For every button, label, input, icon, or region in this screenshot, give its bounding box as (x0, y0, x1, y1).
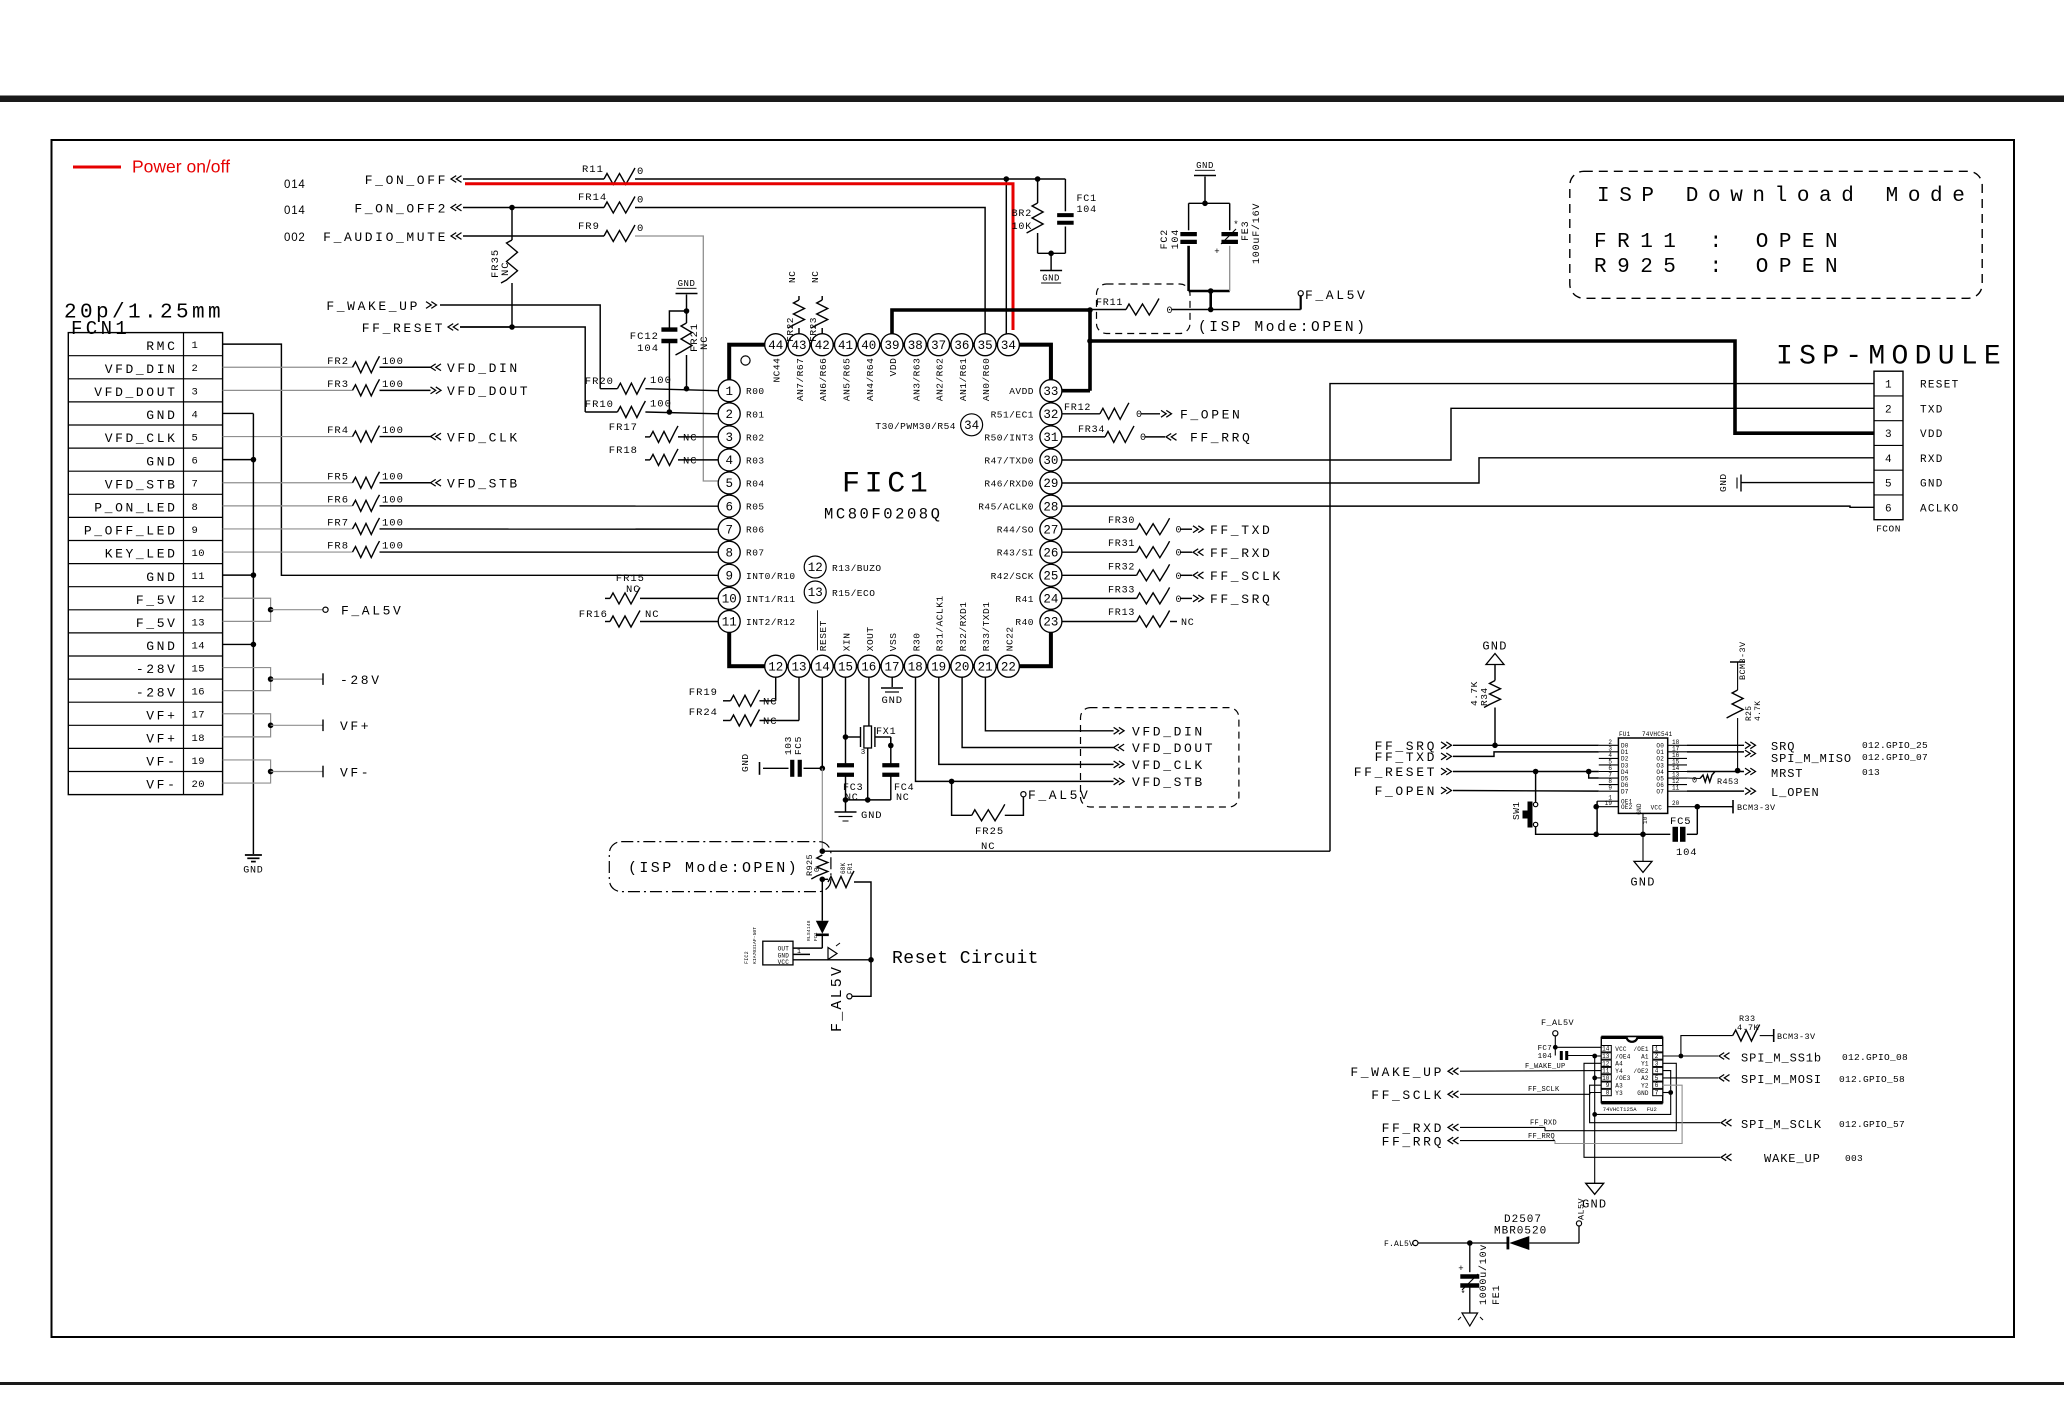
svg-text:002: 002 (284, 232, 306, 244)
svg-text:17: 17 (885, 660, 900, 674)
svg-text:WAKE_UP: WAKE_UP (1764, 1152, 1821, 1166)
svg-text:23: 23 (1043, 616, 1058, 630)
svg-text:VCC: VCC (1615, 1046, 1627, 1053)
svg-text:FF_RRQ: FF_RRQ (1528, 1133, 1555, 1141)
schematic border frame (52, 140, 2015, 1337)
wire MCU pin17 VSS to ground (891, 677, 893, 687)
ground above FC2/FE3 (1194, 175, 1216, 177)
svg-text:4: 4 (1885, 454, 1892, 466)
ISP mode dashed box around FR11 (1097, 284, 1191, 334)
svg-text:F_WAKE_UP: F_WAKE_UP (1525, 1063, 1566, 1071)
svg-text:GND: GND (1718, 473, 1729, 492)
MCU pin 17 circle (881, 655, 903, 677)
svg-text:NC: NC (787, 271, 798, 283)
svg-text:FR34: FR34 (1078, 425, 1105, 436)
svg-text:R453: R453 (1717, 777, 1739, 787)
svg-text:Reset Circuit: Reset Circuit (892, 949, 1039, 969)
svg-text:11: 11 (1672, 785, 1680, 792)
svg-text:R44/SO: R44/SO (997, 525, 1034, 536)
svg-text:2: 2 (192, 363, 199, 375)
svg-text:BCM3-3V: BCM3-3V (1737, 803, 1776, 813)
net WAKE_UP arrow+label (1721, 1154, 1732, 1161)
wire FU1 O1 to SPI_M_MISO (1687, 751, 1744, 753)
svg-text:FR22: FR22 (785, 317, 796, 342)
junction dot gnd rail FU2 (1592, 1112, 1597, 1117)
net SPI_M_SS1b arrow+label (1719, 1053, 1730, 1060)
svg-text:6: 6 (192, 456, 199, 468)
svg-text:R31/ACLK1: R31/ACLK1 (935, 595, 946, 651)
svg-text:R11: R11 (582, 164, 604, 176)
wire BR2/FC1 bottom rail (1038, 252, 1066, 254)
MCU pin 7 circle (718, 518, 740, 540)
svg-text:+: + (1458, 1264, 1463, 1274)
svg-text:100: 100 (382, 425, 404, 437)
svg-text:INT1/R11: INT1/R11 (746, 594, 796, 605)
FU1 pin 16 O2 stub (1668, 757, 1687, 759)
svg-text:GND: GND (1042, 274, 1060, 284)
svg-text:F_OPEN: F_OPEN (1180, 408, 1242, 423)
ground GND above FC12/FR21 (686, 295, 688, 312)
FU2 pin 12 A4 box (1601, 1060, 1611, 1066)
svg-text:FF_TXD: FF_TXD (1210, 523, 1272, 538)
svg-text:3: 3 (192, 386, 199, 398)
svg-text:0: 0 (1692, 776, 1697, 786)
svg-text:7: 7 (725, 523, 733, 537)
wire FC2/FE3 bottom junction (1189, 290, 1230, 293)
crystal right plate to FC4 (890, 737, 892, 746)
MCU pin 24 circle (1040, 587, 1062, 609)
svg-text:FIC1: FIC1 (842, 468, 932, 502)
svg-text:VFD_DOUT: VFD_DOUT (447, 384, 530, 399)
svg-text:NC: NC (645, 609, 660, 621)
MCU pin 4 circle (718, 449, 740, 471)
wire F_AUDIO_MUTE to FR9 (463, 235, 604, 237)
svg-text:29: 29 (1043, 477, 1058, 491)
wire FF_RRQ to FU2 Y2 (gray) (1460, 1140, 1555, 1142)
svg-text:19: 19 (931, 660, 946, 674)
svg-text:9: 9 (1606, 1082, 1610, 1089)
svg-text:R34: R34 (1479, 687, 1490, 706)
junction dot R33/SS1b (1679, 1054, 1684, 1059)
svg-text:KIA7031AF-50T: KIA7031AF-50T (752, 927, 758, 964)
svg-text:8: 8 (725, 546, 733, 560)
svg-text:*: * (1233, 220, 1238, 230)
svg-text:AVDD: AVDD (1009, 386, 1034, 397)
svg-text:OUT: OUT (778, 945, 790, 952)
svg-text:26: 26 (1043, 546, 1058, 560)
svg-text:VF-: VF- (146, 778, 177, 793)
reset IC FIC2 KIA7031AF-50T (763, 941, 793, 965)
svg-text:104: 104 (1077, 205, 1097, 216)
svg-text:10: 10 (1602, 1075, 1610, 1082)
svg-text:VFD_CLK: VFD_CLK (447, 430, 520, 445)
wire FR2 out / arrow / net VFD_DIN (380, 366, 431, 368)
gnd rail under FU1 (1596, 833, 1670, 835)
net VFD_CLK arrow+label (1114, 761, 1125, 768)
FU1 GND pin wire down (1642, 813, 1644, 834)
svg-text:31: 31 (1043, 431, 1058, 445)
svg-text:GND: GND (1196, 161, 1214, 171)
svg-text:100: 100 (650, 399, 672, 411)
FU1 pin 15 O3 stub (1668, 764, 1687, 766)
svg-text:FF_SCLK: FF_SCLK (1528, 1086, 1560, 1094)
wire FU2 gnd down to triangle (1594, 1114, 1596, 1183)
svg-text:F.AL5V: F.AL5V (1384, 1240, 1414, 1249)
net F_ON_OFF input arrow (451, 176, 462, 183)
svg-text:9: 9 (192, 525, 199, 537)
svg-text:11: 11 (722, 616, 737, 630)
svg-text:012.GPIO_58: 012.GPIO_58 (1839, 1074, 1905, 1085)
svg-text:F_AL5V: F_AL5V (1541, 1018, 1575, 1028)
wire FR9 to MCU pin 5 (gray) (635, 236, 718, 481)
svg-text:100: 100 (382, 471, 404, 483)
svg-text:SPI_M_SS1b: SPI_M_SS1b (1741, 1052, 1822, 1066)
junction dot FR11/FC2-FE3 (1208, 307, 1214, 313)
svg-text:MRST: MRST (1771, 767, 1803, 781)
svg-text:-28V: -28V (136, 685, 178, 700)
terminal -28V (322, 673, 324, 685)
svg-text:6: 6 (1885, 503, 1892, 515)
FU1 pin 4 D2 stub (1599, 757, 1619, 759)
svg-text:FF_SRQ: FF_SRQ (1210, 592, 1272, 607)
wire R11 to pin34 node and BR2/FC1 (635, 178, 1065, 180)
wire FF_TXD to FU1 D1 (1453, 752, 1599, 757)
wire FCN1 pin10 to FR8 (gray) (223, 551, 353, 553)
FU2 pin 13 /OE4 box (1601, 1053, 1611, 1059)
svg-text:19: 19 (192, 756, 206, 768)
svg-text:-28V: -28V (136, 662, 178, 677)
svg-text:33: 33 (1043, 385, 1058, 399)
svg-text:16: 16 (192, 687, 206, 699)
FU1 pin 14 O4 stub (1668, 771, 1687, 773)
wire SPI_M_SS1b from FU2 pin2 A1 (1663, 1055, 1718, 1057)
svg-text:1: 1 (1885, 380, 1892, 392)
FU2 pin 6 Y2 box (1653, 1082, 1663, 1088)
wire FCN1 pin9 to FR7 (gray) (223, 528, 353, 530)
svg-text:12: 12 (808, 561, 823, 575)
wire top rail to GND (1204, 177, 1206, 204)
svg-text:100: 100 (382, 494, 404, 506)
svg-text:0: 0 (637, 166, 644, 178)
wire ISP TXD pin2 from MCU pin 30 (1062, 408, 1874, 460)
wire A4 to WAKE_UP loop (1584, 1063, 1720, 1157)
svg-text:40: 40 (861, 339, 876, 353)
junction dot FE1 (1467, 1240, 1473, 1246)
svg-text:A1: A1 (1641, 1053, 1649, 1060)
MCU pin 38 circle (904, 334, 926, 356)
MCU pin 36 circle (951, 334, 973, 356)
svg-text:100: 100 (382, 517, 404, 529)
MCU pin 37 circle (928, 334, 950, 356)
svg-text:NC: NC (699, 335, 711, 350)
svg-text:FR6: FR6 (327, 494, 349, 506)
resistor FR35 NC vertical (511, 208, 513, 241)
svg-text:0: 0 (1176, 572, 1183, 583)
wire FC12 top loop to GND (669, 311, 686, 330)
svg-text:4.7K: 4.7K (1754, 701, 1763, 721)
svg-text:14: 14 (1602, 1046, 1610, 1053)
capacitor FC4 NC (890, 737, 892, 764)
MCU pin 32 circle (1040, 403, 1062, 425)
svg-text:10: 10 (1642, 816, 1649, 824)
svg-text:GND: GND (678, 279, 696, 289)
svg-text:14: 14 (192, 640, 206, 652)
svg-text:F_AL5V: F_AL5V (1028, 788, 1090, 803)
terminal F_AL5V near FR11 (1300, 296, 1302, 310)
svg-text:ACLKO: ACLKO (1920, 503, 1960, 515)
FU2 pin 9 A3 box (1601, 1082, 1611, 1088)
wire FCN1 pin2 to FR2 (gray) (223, 366, 353, 368)
net VFD_STB arrow+label (1114, 778, 1125, 785)
junction dot reset net (820, 848, 826, 854)
svg-text:34: 34 (1001, 339, 1016, 353)
svg-text:1: 1 (725, 385, 733, 399)
svg-text:NC: NC (683, 433, 698, 445)
capacitor FC3 NC (845, 762, 847, 765)
ground arrow below FE1 (1462, 1313, 1478, 1326)
MCU pin 35 circle (974, 334, 996, 356)
wire FR20 to MCU pin 1 (645, 389, 718, 391)
wire FR6 to MCU pin 6 (380, 505, 719, 507)
wire FR11 to F_AL5V and FC2/FE3 (1172, 309, 1301, 311)
svg-text:27: 27 (1043, 523, 1058, 537)
MCU pin 9 circle (718, 564, 740, 586)
svg-text:2: 2 (1655, 1053, 1659, 1060)
wire AVDD pin33 loop (1062, 389, 1090, 393)
MCU pin 33 circle (1040, 380, 1062, 402)
wire FC5 right up to VCC (1696, 807, 1698, 835)
wire FIC2 VCC to F_AL5V node (793, 959, 871, 961)
FU1 pin 13 O5 stub (1668, 777, 1687, 779)
svg-text:37: 37 (931, 339, 946, 353)
svg-text:R04: R04 (746, 478, 765, 489)
svg-text:(ISP Mode:OPEN): (ISP Mode:OPEN) (628, 860, 799, 877)
svg-text:11: 11 (192, 571, 206, 583)
wire FCN1 pin7 to FR5 (gray) (223, 482, 353, 484)
wire pin14 node down to ISP-mode junction (gray) (821, 768, 823, 851)
ISP Mode OPEN dash-dot box (609, 842, 831, 892)
svg-text:7: 7 (192, 479, 199, 491)
svg-text:FR8: FR8 (327, 541, 349, 553)
wire FC12 bottom to FR10 row (668, 341, 670, 412)
gnd tie wire /OE4 /OE3 FC7 (1594, 1056, 1596, 1115)
svg-text:5: 5 (1655, 1075, 1659, 1082)
wire F_WAKE_UP to FR20 and MCU pin 1 (440, 305, 600, 389)
wire ISP RESET pin1 to R925 node (1330, 384, 1874, 852)
svg-text:100: 100 (650, 375, 672, 387)
svg-text:R42/SCK: R42/SCK (991, 571, 1034, 582)
FU1 pin 12 O6 stub (1668, 784, 1687, 786)
net FF_RESET input arrow (448, 324, 459, 331)
svg-text:ISP-MODULE: ISP-MODULE (1776, 342, 2007, 373)
svg-text:R25: R25 (1745, 706, 1754, 721)
wire F_AL5V node down to terminal (852, 960, 871, 997)
svg-text:NC: NC (683, 456, 698, 468)
svg-text:NC: NC (763, 716, 778, 728)
junction dot VDD/FR11 (1087, 307, 1093, 313)
svg-text:0: 0 (1176, 549, 1183, 560)
svg-text:0: 0 (637, 223, 644, 235)
svg-text:R02: R02 (746, 432, 765, 443)
svg-text:FF_TXD: FF_TXD (1375, 750, 1437, 765)
svg-text:FF_RRQ: FF_RRQ (1382, 1135, 1444, 1150)
MCU pin 29 circle (1040, 472, 1062, 494)
svg-text:R925 : OPEN: R925 : OPEN (1594, 256, 1848, 279)
svg-text:VF+: VF+ (146, 708, 177, 723)
svg-text:RXD: RXD (1920, 454, 1944, 466)
svg-text:FF_RXD: FF_RXD (1210, 546, 1272, 561)
MCU pin 34 circle (997, 334, 1019, 356)
bottom separator line (0, 1382, 2064, 1385)
net SPI_M_MOSI arrow+label (1719, 1075, 1730, 1082)
ground triangle below FU2 (1586, 1183, 1604, 1194)
svg-text:5: 5 (192, 433, 199, 445)
svg-text:16: 16 (861, 660, 876, 674)
svg-text:Y2: Y2 (1641, 1083, 1649, 1090)
MCU pin 43 circle (788, 334, 810, 356)
wire FCN1 pin5 to FR4 (gray) (223, 436, 353, 438)
wire VCC to BCM3-3V (1697, 806, 1733, 808)
svg-text:FR4: FR4 (327, 425, 349, 437)
svg-text:104: 104 (1538, 1053, 1553, 1061)
MCU pin 15 circle (835, 655, 857, 677)
svg-text:BCM3-3V: BCM3-3V (1777, 1032, 1816, 1042)
wire FR5 out / arrow / net VFD_STB (380, 482, 431, 484)
svg-text:NC: NC (981, 841, 996, 853)
svg-text:F_OPEN: F_OPEN (1375, 784, 1437, 799)
net SPI_M_MISO arrow+label (1745, 750, 1756, 757)
svg-text:GND: GND (1920, 479, 1944, 491)
svg-text:/OE4: /OE4 (1615, 1053, 1630, 1060)
svg-text:F_5V: F_5V (136, 593, 178, 608)
svg-text:6: 6 (725, 500, 733, 514)
svg-text:F_AL5V: F_AL5V (829, 965, 846, 1032)
svg-text:FC5: FC5 (1670, 816, 1691, 828)
MCU pin 25 circle (1040, 564, 1062, 586)
svg-text:30: 30 (1043, 454, 1058, 468)
FU1 pin 5 D3 stub (1599, 764, 1619, 766)
wire FCN1 pin8 to FR6 (gray) (223, 505, 353, 507)
thick power vertical to AVDD net (1088, 310, 1092, 391)
wire FCN1 pins 15,16 -28V (gray) (223, 668, 271, 691)
net SRQ arrow+label (1745, 742, 1756, 749)
wire MCU pin21 to VFD_DIN (985, 677, 1113, 731)
svg-text:17: 17 (192, 710, 206, 722)
svg-text:FCN1: FCN1 (71, 318, 130, 340)
svg-text:13: 13 (791, 660, 806, 674)
svg-text:39: 39 (885, 339, 900, 353)
FU1 pin 2 D0 stub (1599, 744, 1619, 746)
svg-text:0: 0 (1176, 526, 1183, 537)
FU2 pin 5 A2 box (1653, 1075, 1663, 1081)
svg-text:VFD_STB: VFD_STB (105, 477, 178, 492)
FCN1 connector body (68, 333, 222, 795)
svg-text:FR11: FR11 (1096, 298, 1123, 309)
svg-text:FR20: FR20 (585, 376, 614, 388)
diode FD1 RLS4148 (821, 879, 823, 920)
ground bus from FCN1 pins 4,6,11,14 (223, 412, 254, 414)
svg-text:1000u/10v: 1000u/10v (1478, 1244, 1490, 1305)
MCU pin 41 circle (835, 334, 857, 356)
MCU alt-function circle 34 T30/PWM30/R54 (961, 414, 983, 436)
svg-text:XIN: XIN (842, 633, 853, 652)
svg-text:Y4: Y4 (1615, 1068, 1623, 1075)
MCU pin 22 circle (997, 655, 1019, 677)
svg-text:12: 12 (192, 594, 206, 606)
crystal pin3 center lead (867, 748, 869, 800)
VFD interface dashed box (1081, 708, 1239, 807)
buffer triangle symbol (828, 948, 837, 960)
svg-text:R15/ECO: R15/ECO (832, 588, 875, 599)
svg-text:104: 104 (1676, 847, 1697, 859)
svg-text:GND: GND (861, 810, 882, 822)
wire MCU pin12 down to FR19 (775, 677, 777, 701)
wire FU1 O3 row to MRST (1687, 771, 1744, 773)
svg-text:12: 12 (1602, 1060, 1610, 1067)
svg-text:FC1: FC1 (1077, 194, 1097, 205)
svg-text:1: 1 (192, 340, 199, 352)
svg-text:3: 3 (1885, 429, 1892, 441)
svg-text:NC: NC (500, 261, 512, 276)
XOUT branch into crystal top (868, 677, 870, 726)
svg-text:7: 7 (1655, 1090, 1659, 1097)
svg-text:6: 6 (1655, 1082, 1659, 1089)
junction dot VFD_STB/FR25 (949, 779, 955, 785)
svg-text:GND: GND (740, 753, 751, 772)
ground below BR2/FC1 (1040, 270, 1062, 272)
FU1 pin 3 D1 stub (1599, 751, 1619, 753)
svg-text:FR30: FR30 (1108, 516, 1135, 527)
svg-text:VFD_STB: VFD_STB (447, 476, 520, 491)
svg-text:4: 4 (1655, 1068, 1659, 1075)
FU2 pin 10 /OE3 box (1601, 1075, 1611, 1081)
crystal ground rail (846, 799, 891, 801)
svg-text:13: 13 (192, 617, 206, 629)
svg-text:AN5/R65: AN5/R65 (842, 358, 853, 401)
terminal F_AL5V near FR25 (1021, 792, 1026, 797)
MCU pin 39 circle (881, 334, 903, 356)
svg-text:VF-: VF- (340, 765, 371, 780)
wire FC2/FE3 top rail (1189, 202, 1230, 204)
svg-text:A4: A4 (1615, 1061, 1623, 1068)
junction dot F_ON_OFF / pin34 branch (1004, 176, 1010, 182)
wire FF_SRQ to FU1 D0 (1453, 744, 1599, 746)
svg-text:104: 104 (637, 343, 659, 355)
ground below crystal (835, 811, 857, 813)
svg-text:R41: R41 (1015, 594, 1034, 605)
svg-text:18: 18 (908, 660, 923, 674)
svg-text:3: 3 (861, 749, 866, 757)
wire MCU pin14 RESET down to FC5 node (821, 677, 823, 768)
svg-text:22: 22 (1001, 660, 1016, 674)
wire F_WAKE_UP to FU2 Y4 (1460, 1070, 1601, 1073)
svg-text:L_OPEN: L_OPEN (1771, 786, 1820, 800)
FU2 pin 1 /OE1 box (1653, 1046, 1663, 1052)
svg-text:R06: R06 (746, 525, 765, 536)
MCU pin 10 circle (718, 587, 740, 609)
svg-text:GND: GND (1630, 875, 1655, 889)
svg-text:P_OFF_LED: P_OFF_LED (84, 524, 178, 539)
svg-text:AN1/R61: AN1/R61 (958, 358, 969, 401)
net F_ON_OFF2 input arrow (451, 204, 462, 211)
wire F_ON_OFF2 to FR14 (463, 207, 604, 209)
svg-text:OE2: OE2 (1621, 804, 1633, 811)
ISP-MODULE connector body FCON (1874, 371, 1903, 520)
svg-text:VCC: VCC (778, 959, 790, 966)
svg-text:AN3/R63: AN3/R63 (911, 358, 922, 401)
svg-text:RESET: RESET (1920, 380, 1960, 392)
svg-text:FR32: FR32 (1108, 562, 1135, 573)
